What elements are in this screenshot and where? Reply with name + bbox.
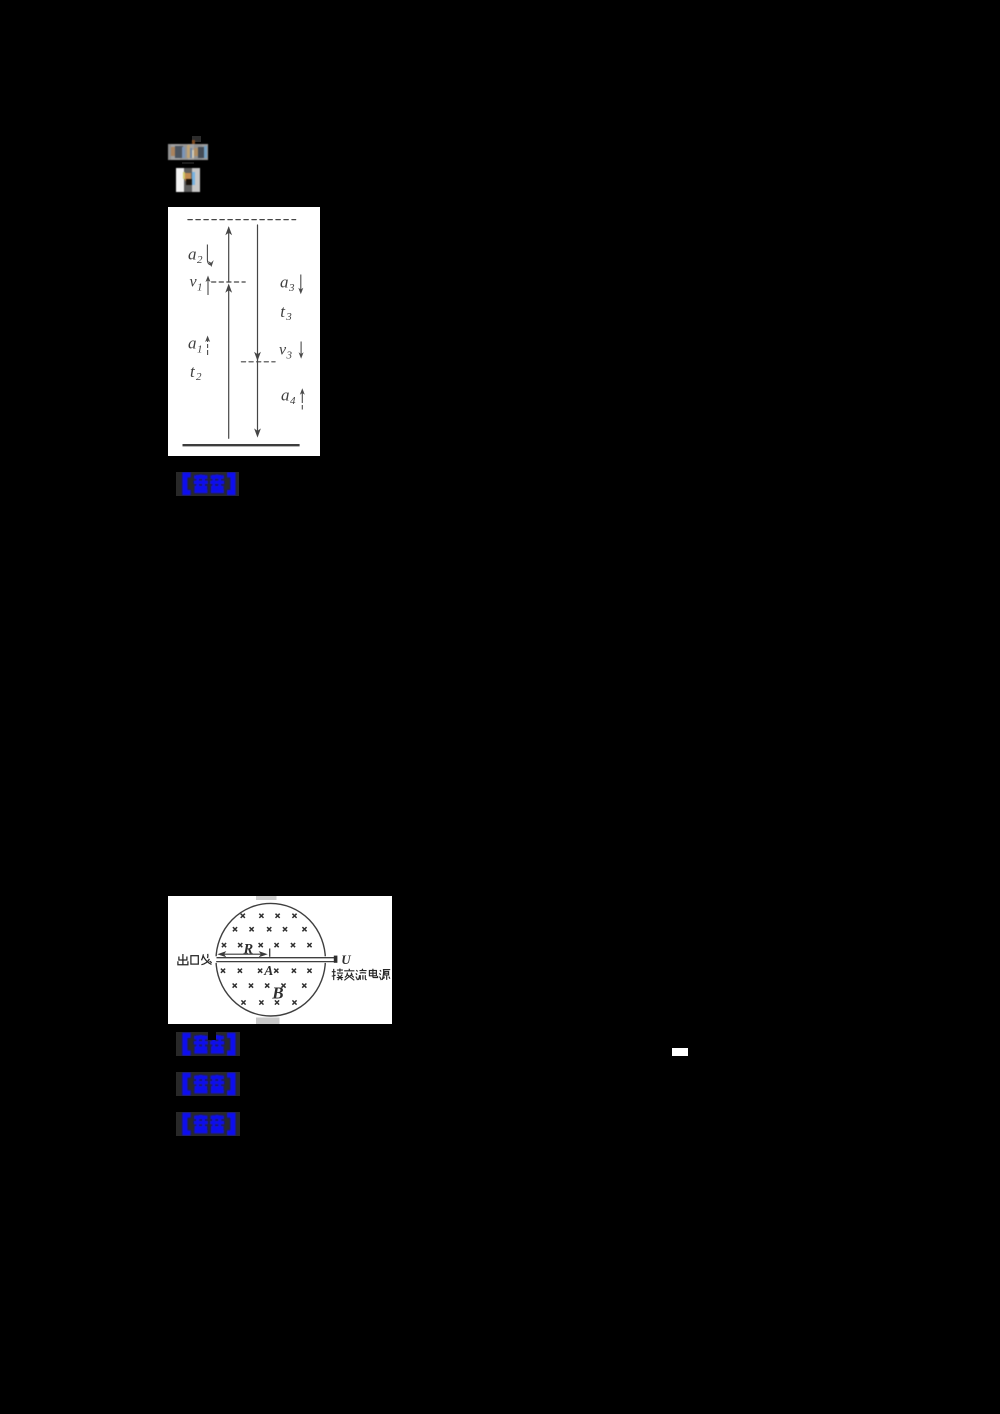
- svg-text:a: a: [280, 272, 289, 291]
- svg-text:3: 3: [288, 282, 295, 294]
- equation image artifact: small dark block above fraction: [192, 136, 201, 143]
- right down-arrow line: [257, 225, 259, 435]
- blue label 【点评】: [176, 472, 240, 496]
- slot gap erase: [215, 956, 338, 963]
- radical: [187, 145, 190, 158]
- equation image artifact: numerator box "3√2": [168, 144, 208, 160]
- field region circle: [216, 903, 325, 1016]
- text 接交流电源 (connect AC supply): [332, 969, 390, 981]
- svg-text:1: 1: [197, 281, 203, 293]
- v1 level dashed line: [212, 281, 246, 283]
- mid arrowhead on right line (down): [254, 352, 261, 361]
- left up-arrow upper segment (v1 to apex): [228, 228, 230, 282]
- equation image artifact: denominator box "2": [176, 168, 200, 192]
- centre tick: [269, 949, 271, 957]
- svg-text:1: 1: [197, 344, 203, 356]
- ground line: [183, 444, 300, 446]
- svg-text:3: 3: [286, 349, 293, 361]
- figure 1: vertical throw motion diagram: [168, 207, 320, 456]
- blue label 【分析】: [176, 1112, 240, 1135]
- x field marks: [221, 914, 312, 1005]
- ceiling dashed line: [188, 219, 296, 221]
- v3 level dashed line: [241, 361, 275, 363]
- bottom arrowhead on right line (down): [254, 428, 261, 437]
- v1-level arrowhead on left line (up): [225, 284, 232, 293]
- glyph 2: [194, 148, 198, 156]
- svg-text:U: U: [341, 952, 351, 967]
- blue label 【专题】: [176, 1072, 240, 1096]
- grey tab top: [256, 896, 277, 900]
- slot upper plate line: [217, 957, 337, 959]
- a1 small up arrow (broken): [207, 338, 209, 355]
- grey tab bottom: [256, 1018, 280, 1025]
- a2 small down arrow with hook: [207, 245, 211, 266]
- svg-text:B: B: [271, 983, 283, 1002]
- svg-text:4: 4: [290, 395, 296, 407]
- slot lower plate line: [216, 961, 336, 963]
- equation image artifact: orange streak: [192, 140, 195, 146]
- v1 small up arrow: [207, 278, 209, 295]
- slot right terminal: [334, 956, 338, 963]
- left up-arrow lower segment (launch to v1): [228, 287, 230, 438]
- blue label 【考点】: [176, 1032, 239, 1056]
- svg-text:2: 2: [197, 254, 203, 266]
- text 出口处 (exit): [178, 954, 212, 965]
- glyph 3: [171, 147, 175, 156]
- R radius double arrow: [220, 953, 266, 955]
- figure 2: cyclotron magnetic field diagram: [168, 896, 392, 1024]
- apex arrowhead (up): [225, 226, 232, 235]
- svg-text:a: a: [188, 244, 197, 263]
- svg-text:2: 2: [196, 371, 202, 383]
- a3 small down arrow: [300, 275, 302, 292]
- v3 small down arrow: [300, 342, 302, 357]
- svg-text:a: a: [188, 333, 197, 352]
- white dash mark: [672, 1048, 688, 1056]
- svg-text:A: A: [263, 963, 273, 978]
- a4 small up arrow (broken): [301, 391, 303, 410]
- svg-text:R: R: [243, 942, 254, 958]
- black notch artifact over 考点 box: [208, 1032, 215, 1040]
- svg-text:a: a: [281, 385, 290, 404]
- equation image artifact: faint fraction bar: [182, 162, 194, 164]
- svg-text:3: 3: [285, 311, 292, 323]
